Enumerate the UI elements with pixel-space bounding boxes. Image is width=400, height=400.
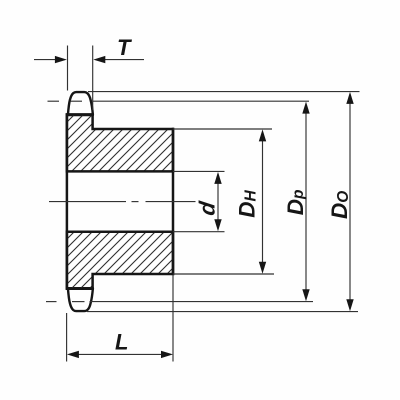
svg-text:L: L (115, 330, 128, 355)
svg-text:T: T (117, 35, 132, 60)
